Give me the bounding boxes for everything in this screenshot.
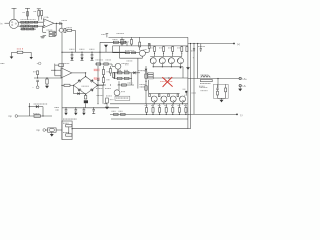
svg-text:LS+: LS+ (243, 79, 247, 81)
svg-text:IC1A: IC1A (44, 16, 49, 19)
svg-text:LS-: LS- (243, 86, 247, 88)
svg-text:(-): (-) (240, 114, 243, 117)
svg-text:(+): (+) (237, 43, 240, 46)
